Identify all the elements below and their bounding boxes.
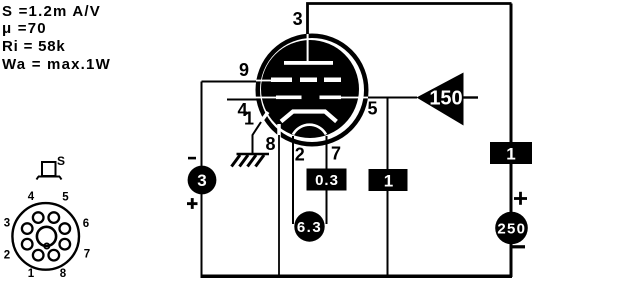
wire: right HT rail lower [510, 163, 513, 277]
svg-text:1: 1 [244, 109, 254, 129]
svg-text:9: 9 [239, 60, 249, 80]
svg-text:6: 6 [83, 218, 89, 230]
minus sign of 250V [513, 245, 526, 248]
svg-text:Wa = max.1W: Wa = max.1W [2, 56, 111, 73]
pin 2 lead [292, 136, 294, 224]
svg-text:3: 3 [197, 171, 206, 190]
top-cap symbol S [37, 154, 66, 180]
svg-text:μ =70: μ =70 [2, 20, 47, 37]
svg-text:5: 5 [367, 99, 377, 119]
wire: screen divider vertical lower [387, 190, 389, 277]
svg-text:7: 7 [84, 249, 90, 261]
pin 3 anode lead inside envelope [307, 34, 309, 62]
minus sign of 3V [188, 157, 196, 160]
socket outline [12, 203, 79, 270]
svg-text:6.3: 6.3 [297, 219, 322, 236]
pin 7 lead [326, 136, 328, 224]
wire: top pin3 lead to HT rail [308, 4, 512, 35]
wire: screen divider vertical [387, 98, 389, 171]
socket pin 1 [28, 250, 44, 280]
svg-text:3: 3 [4, 218, 10, 230]
svg-text:8: 8 [265, 134, 275, 154]
heater loop (white arc) [293, 125, 326, 135]
wire: grid pin9 lead [202, 81, 259, 83]
plus sign of 3V [187, 198, 198, 209]
socket pin 7 [60, 239, 91, 261]
svg-text:1: 1 [28, 268, 35, 280]
svg-text:1: 1 [506, 145, 515, 164]
grid g2 dashes (pin 9 row) [256, 78, 341, 83]
socket pin 5 [49, 192, 70, 223]
heater supply 6.3V [294, 211, 324, 241]
svg-text:Ri = 58k: Ri = 58k [2, 38, 66, 55]
svg-text:150: 150 [429, 88, 462, 110]
wire: left bias rail [201, 82, 203, 278]
cathode chevron [281, 112, 337, 122]
svg-text:3: 3 [293, 9, 303, 29]
wire: bottom return [201, 274, 513, 278]
socket pin 6 [60, 218, 90, 234]
plus sign of 250V [514, 192, 527, 205]
resistor box 0.3 (cathode) [307, 169, 347, 191]
socket pin 4 [28, 191, 44, 223]
resistor box 1 (anode load) [490, 142, 532, 164]
svg-text:7: 7 [331, 144, 341, 164]
pin 8 lead [278, 135, 280, 276]
socket center spigot with key [37, 227, 56, 249]
tube V1 envelope [258, 36, 367, 145]
stub: pin 4 lead [227, 99, 258, 101]
socket pin 8 [49, 250, 67, 280]
svg-text:1: 1 [384, 172, 393, 191]
wire: pin 5 lead to arrow [368, 97, 417, 99]
grid g1 dashes (pin 4/5 row) [256, 96, 368, 100]
svg-text:S =1.2m A/V: S =1.2m A/V [2, 3, 101, 20]
svg-text:0.3: 0.3 [315, 172, 339, 189]
anode plate bar [284, 61, 333, 65]
svg-text:2: 2 [4, 250, 10, 262]
ground (chassis) symbol [232, 154, 270, 167]
svg-text:2: 2 [295, 145, 305, 165]
battery 250V [495, 212, 528, 245]
pin 8 lead crossing (white over ring) [277, 124, 281, 137]
arrow 150V output [417, 73, 479, 126]
svg-text:250: 250 [497, 221, 526, 238]
svg-text:S: S [57, 154, 65, 168]
pin 1 lead crossing (white over ring) [259, 112, 269, 125]
resistor box 1 (screen load) [369, 169, 408, 191]
svg-text:4: 4 [28, 191, 35, 203]
pin 1 lead [253, 122, 262, 154]
socket pin 2 [4, 239, 33, 262]
socket pin 3 [4, 218, 33, 234]
svg-text:8: 8 [60, 268, 67, 280]
wire: right HT rail upper [510, 4, 513, 144]
svg-text:5: 5 [62, 192, 69, 204]
battery 3V grid bias [188, 166, 217, 195]
